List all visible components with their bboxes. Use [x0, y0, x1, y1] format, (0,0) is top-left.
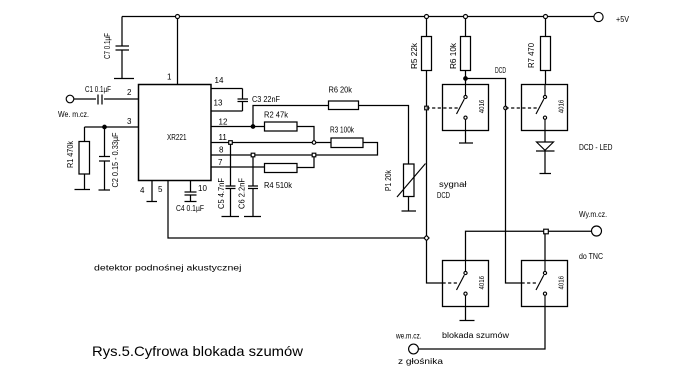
svg-text:detektor podnośnej akustycznej: detektor podnośnej akustycznej: [94, 264, 242, 273]
wire pin 1: [177, 17, 179, 85]
switch symbol 4016 A: [427, 85, 468, 131]
resistor R6 10k vertical: [461, 17, 471, 85]
capacitor C2: [99, 127, 110, 190]
svg-text:8: 8: [219, 146, 224, 155]
svg-text:we.m.cz.: we.m.cz.: [395, 332, 421, 341]
switch 4016 A row1 left box: [443, 85, 489, 131]
wire DCD net: [466, 79, 522, 284]
wire pin 7: [211, 166, 265, 168]
terminal z glosnika: [409, 344, 419, 354]
svg-text:Rys.5.Cyfrowa blokada szumów: Rys.5.Cyfrowa blokada szumów: [92, 343, 304, 359]
resistor R4: [265, 164, 298, 173]
wire pin 12: [211, 126, 265, 128]
svg-text:7: 7: [218, 158, 223, 167]
resistor R7: [541, 17, 551, 85]
svg-text:C7 0.1µF: C7 0.1µF: [103, 33, 112, 59]
svg-text:C1 0.1µF: C1 0.1µF: [85, 85, 111, 94]
svg-text:4016: 4016: [559, 100, 566, 114]
resistor R5: [422, 17, 432, 71]
terminal input We m.cz.: [66, 95, 74, 103]
capacitor C7: [116, 17, 130, 79]
markers and terminals: [66, 12, 603, 354]
resistor R6 20k: [329, 101, 359, 110]
wire R3 right return: [314, 143, 378, 156]
svg-text:5: 5: [158, 185, 163, 194]
svg-text:R7 470: R7 470: [527, 42, 536, 68]
ground C5: [222, 216, 240, 218]
svg-text:R6 10k: R6 10k: [449, 42, 458, 69]
node pin8 R3 R4: [312, 153, 316, 157]
wire pin 11: [211, 142, 331, 144]
node pin11 C5: [229, 141, 233, 145]
svg-text:1: 1: [167, 73, 172, 82]
terminal +5V: [594, 12, 603, 21]
svg-text:4: 4: [140, 186, 145, 195]
svg-text:R2 47k: R2 47k: [264, 111, 289, 120]
switch 4016 D row2 right box: [522, 261, 568, 307]
wire +5V rail: [122, 16, 594, 18]
node DCD junction: [464, 77, 468, 81]
svg-text:4016: 4016: [559, 276, 566, 290]
svg-text:2: 2: [127, 88, 132, 97]
resistor R1: [79, 127, 90, 190]
svg-text:DCD: DCD: [437, 191, 450, 200]
IC U1 XR221 body: [139, 85, 212, 181]
node output junction: [544, 229, 549, 234]
LED DCD: [536, 131, 555, 174]
svg-text:14: 14: [215, 76, 224, 85]
svg-text:R5 22k: R5 22k: [410, 42, 419, 69]
switch 4016 C row2 left box: [443, 261, 489, 307]
node pin8 C6: [251, 153, 255, 157]
ground 4016 A: [459, 131, 473, 144]
node R2 pin11: [312, 141, 316, 145]
svg-text:blokada szumów: blokada szumów: [442, 331, 509, 340]
resistor R3: [331, 138, 363, 148]
node bottom rail junction: [424, 235, 429, 240]
wire R6 right to P1: [359, 106, 409, 165]
wire R5 squelch line down: [427, 71, 443, 284]
svg-text:C2 0.15 - 0.33µF: C2 0.15 - 0.33µF: [111, 132, 120, 187]
ground C6: [244, 216, 261, 218]
svg-text:do TNC: do TNC: [579, 252, 603, 261]
ground R1: [75, 189, 91, 191]
node rail R7: [544, 15, 548, 19]
node pin12 junction: [251, 125, 255, 129]
svg-text:R4 510k: R4 510k: [264, 181, 293, 190]
svg-text:DCD: DCD: [495, 66, 506, 75]
svg-text:We. m.cz.: We. m.cz.: [58, 110, 89, 119]
terminal Wy m.cz.: [592, 226, 602, 236]
capacitor C6: [248, 155, 258, 217]
node rail R6: [464, 15, 468, 19]
svg-text:13: 13: [214, 99, 223, 108]
svg-text:R3 100k: R3 100k: [330, 126, 355, 135]
capacitor C5: [226, 143, 236, 217]
svg-text:C4 0.1µF: C4 0.1µF: [176, 204, 204, 213]
switch symbol 4016 B: [506, 85, 547, 131]
wire R6 left leg: [253, 106, 329, 127]
svg-text:10: 10: [198, 184, 207, 193]
capacitor C1: [74, 95, 139, 105]
wire pin 3: [85, 126, 139, 128]
svg-text:C3 22nF: C3 22nF: [252, 95, 280, 104]
wire R2 right: [297, 127, 314, 143]
switch symbol 4016 C: [443, 261, 468, 307]
node control B: [504, 106, 508, 110]
svg-text:XR221: XR221: [167, 133, 187, 142]
svg-text:4016: 4016: [479, 100, 486, 114]
wire 4016 D top to output node: [544, 234, 546, 261]
svg-text:sygnał: sygnał: [439, 180, 467, 189]
ground pin 4: [147, 181, 158, 202]
ground C7: [114, 78, 134, 80]
svg-text:R1 470k: R1 470k: [66, 140, 75, 168]
wire pin 13: [211, 110, 243, 112]
svg-text:z głośnika: z głośnika: [398, 357, 444, 366]
capacitor C3: [238, 89, 249, 112]
potentiometer P1: [404, 164, 415, 211]
wire 4016 C to output line: [466, 231, 544, 260]
svg-text:C6 2.2nF: C6 2.2nF: [238, 178, 247, 209]
ground 4016 C: [460, 307, 475, 321]
ground LED: [540, 173, 552, 175]
ground P1: [402, 210, 417, 212]
wire R4 right: [297, 155, 314, 168]
LED triangle: [537, 142, 554, 150]
ground C4: [185, 201, 197, 203]
node rail R5: [425, 15, 429, 19]
svg-text:Wy.m.cz.: Wy.m.cz.: [579, 210, 607, 219]
node pin3 junction: [103, 125, 107, 129]
switch symbol 4016 D: [522, 261, 547, 307]
svg-text:4016: 4016: [479, 276, 486, 290]
wire pin 5 to bottom rail: [168, 181, 427, 239]
node rail pin1: [176, 15, 180, 19]
switch 4016 B row1 right box: [522, 85, 568, 131]
resistor R2: [265, 122, 298, 131]
svg-text:DCD - LED: DCD - LED: [579, 143, 613, 152]
switch internals group: [397, 85, 554, 307]
potentiometer P1 arrow: [397, 164, 426, 198]
wire pin 8: [211, 154, 314, 156]
wire pin 14: [211, 88, 243, 90]
capacitor C4: [185, 181, 197, 202]
svg-text:P1 20k: P1 20k: [384, 169, 393, 191]
svg-text:C5 4.7nF: C5 4.7nF: [217, 178, 226, 209]
svg-text:+5V: +5V: [616, 15, 630, 24]
wire output to terminal: [549, 230, 592, 232]
node control A: [425, 106, 429, 110]
svg-text:12: 12: [219, 118, 228, 127]
svg-text:3: 3: [127, 117, 132, 126]
svg-text:R6 20k: R6 20k: [329, 86, 353, 95]
wire 4016 D bottom to LF input: [419, 307, 546, 350]
svg-text:11: 11: [219, 133, 228, 142]
ground C2: [99, 189, 111, 191]
